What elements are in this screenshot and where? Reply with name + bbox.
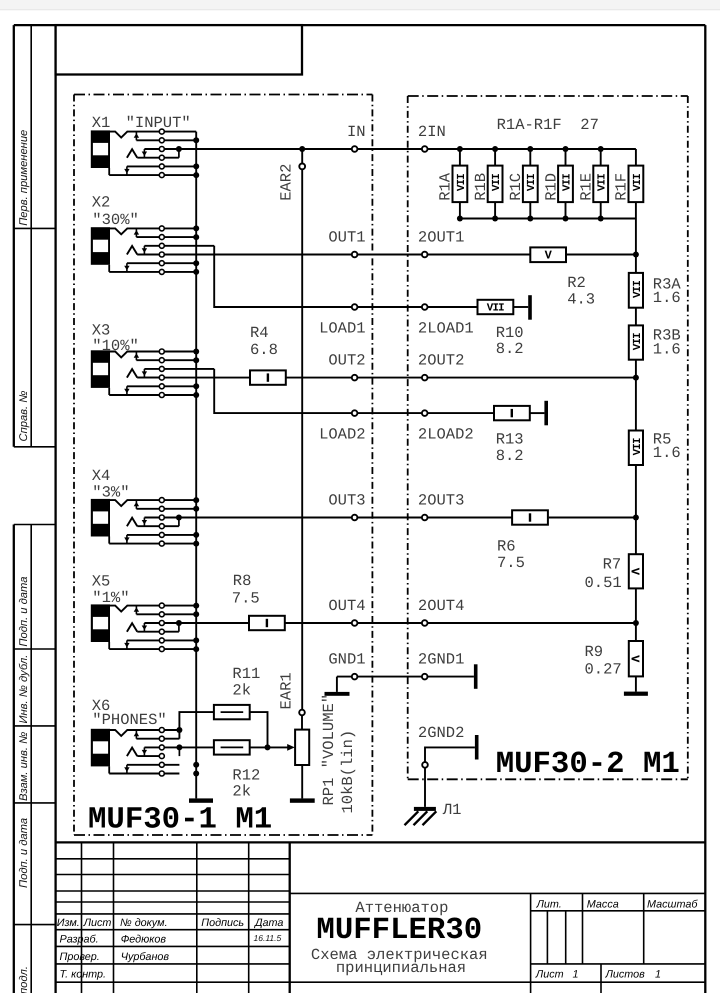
- svg-text:R4: R4: [250, 324, 269, 342]
- wire LOAD1 net riser from X2: [214, 246, 477, 307]
- top left stamp box: [56, 25, 302, 74]
- wire OUT3 net (right of R6): [549, 517, 636, 519]
- svg-text:4.3: 4.3: [567, 290, 595, 308]
- wire X6 C to R12: [179, 746, 214, 748]
- svg-text:Л1: Л1: [442, 801, 462, 819]
- resistor R2: [530, 247, 566, 262]
- svg-text:1.6: 1.6: [653, 289, 681, 307]
- load terminator for 2GND1: [474, 664, 478, 689]
- svg-text:Масштаб: Масштаб: [647, 899, 698, 911]
- connector X5: [91, 573, 199, 653]
- svg-text:LOAD1: LOAD1: [319, 319, 366, 337]
- svg-text:Инв. № дубл.: Инв. № дубл.: [18, 655, 30, 724]
- resistor R1A: [453, 149, 468, 219]
- svg-text:RP1 "VOLUME": RP1 "VOLUME": [320, 694, 338, 806]
- svg-text:16.11.5: 16.11.5: [254, 933, 282, 943]
- svg-text:10kB(lin): 10kB(lin): [339, 730, 357, 814]
- terminal OUT1: [352, 252, 358, 258]
- svg-text:"30%": "30%": [92, 211, 139, 229]
- svg-text:OUT3: OUT3: [328, 491, 365, 509]
- svg-text:2LOAD1: 2LOAD1: [418, 319, 474, 337]
- svg-text:2IN: 2IN: [418, 123, 446, 141]
- load terminator for LOAD2: [544, 401, 548, 426]
- svg-text:Лит.: Лит.: [536, 899, 562, 911]
- wire EAR riser (EAR2 to EAR1): [301, 169, 303, 709]
- terminal 2GND1: [422, 674, 428, 680]
- svg-text:Подпись: Подпись: [201, 917, 244, 929]
- wire X6 A-B riser to R11: [179, 712, 214, 739]
- resistor R4: [250, 370, 286, 384]
- terminal LOAD1: [352, 304, 358, 310]
- module box MUF30-1: [74, 95, 372, 836]
- wire EAR riser (IN to EAR2): [301, 149, 303, 164]
- svg-text:Изм.: Изм.: [57, 917, 80, 929]
- resistor R12: [214, 740, 250, 754]
- ground symbol at GND1: [325, 692, 350, 696]
- svg-text:0.27: 0.27: [585, 660, 622, 678]
- svg-text:"PHONES": "PHONES": [92, 711, 166, 729]
- svg-text:R11: R11: [232, 665, 260, 683]
- wire chain R1F to OUT1 node: [635, 219, 637, 273]
- wire 2GND2 to earth: [424, 768, 426, 807]
- svg-text:V: V: [628, 655, 642, 663]
- svg-text:EAR1: EAR1: [277, 672, 295, 709]
- R1 bank bottom rail junctions: [457, 216, 604, 222]
- connector X4: [91, 467, 199, 547]
- resistor R10: [478, 300, 514, 315]
- svg-text:Дата: Дата: [254, 917, 283, 929]
- svg-text:Т. контр.: Т. контр.: [60, 969, 107, 981]
- junction chain OUT3: [633, 515, 639, 521]
- wire OUT2 net (left of R4): [137, 377, 250, 379]
- svg-text:VII: VII: [632, 438, 644, 455]
- svg-text:IN: IN: [347, 123, 366, 141]
- resistor R9: [628, 641, 643, 676]
- wire R3A to R3B: [635, 308, 637, 326]
- terminal 2OUT1: [422, 252, 428, 258]
- svg-text:R6: R6: [497, 538, 516, 556]
- potentiometer RP1: [295, 730, 309, 765]
- resistor R11: [214, 705, 250, 719]
- svg-text:R1A-R1F 27: R1A-R1F 27: [497, 116, 599, 134]
- junction chain OUT1: [633, 252, 639, 258]
- svg-text:R1D: R1D: [542, 173, 560, 201]
- terminal OUT2: [352, 375, 358, 381]
- ground symbol at R9: [624, 692, 648, 696]
- connector X1: [91, 114, 199, 178]
- svg-text:VII: VII: [526, 174, 538, 191]
- connector X2: [91, 193, 214, 275]
- terminal 2IN: [422, 146, 428, 152]
- svg-text:Лист: Лист: [535, 968, 564, 980]
- resistor R1D: [558, 149, 573, 219]
- svg-text:2GND1: 2GND1: [418, 650, 465, 668]
- svg-text:Подп. и дата: Подп. и дата: [18, 577, 30, 647]
- svg-text:R2: R2: [567, 274, 586, 292]
- terminal 2LOAD2: [422, 410, 428, 416]
- svg-text:"1%": "1%": [92, 589, 129, 607]
- svg-text:MUF30-1 M1: MUF30-1 M1: [88, 803, 272, 838]
- svg-text:2OUT1: 2OUT1: [418, 228, 465, 246]
- resistor R13: [494, 406, 530, 420]
- terminal OUT4: [352, 620, 358, 626]
- svg-text:7.5: 7.5: [497, 554, 525, 572]
- resistor R3A: [629, 273, 644, 308]
- svg-text:2OUT4: 2OUT4: [418, 597, 465, 615]
- svg-text:Провер.: Провер.: [60, 951, 100, 963]
- R1 bank bottom rail: [460, 218, 636, 220]
- wire OUT3 net (left of R6): [179, 517, 512, 519]
- connector X3: [91, 321, 214, 398]
- svg-text:VII: VII: [632, 174, 644, 191]
- wire R11 to wiper riser: [250, 712, 268, 747]
- svg-text:6.8: 6.8: [250, 341, 278, 359]
- svg-text:Чурбанов: Чурбанов: [121, 951, 170, 963]
- resistor R7: [628, 554, 643, 588]
- ground symbol at RP1: [290, 798, 315, 802]
- wire OUT2 net (right of R4): [286, 377, 636, 379]
- terminal IN: [352, 146, 358, 152]
- R1 bank top rail junctions: [457, 146, 604, 152]
- Лист 1 Листов 1 row: [535, 968, 661, 980]
- svg-text:2OUT2: 2OUT2: [418, 351, 465, 369]
- svg-text:X4: X4: [92, 467, 111, 485]
- svg-text:Масса: Масса: [587, 899, 619, 911]
- module box MUF30-2: [408, 96, 688, 779]
- terminal 2OUT2: [422, 375, 428, 381]
- svg-text:MUF30-2 M1: MUF30-2 M1: [496, 747, 680, 782]
- resistor R1F: [629, 149, 644, 219]
- wire LOAD1 to load terminator: [513, 306, 528, 308]
- svg-text:VII: VII: [632, 281, 644, 298]
- svg-text:принципиальная: принципиальная: [336, 959, 466, 977]
- wiper arrow into RP1: [287, 744, 295, 751]
- svg-text:№ докум.: № докум.: [120, 917, 168, 929]
- resistor R6: [512, 510, 548, 524]
- svg-text:Листов: Листов: [605, 968, 646, 980]
- svg-text:7.5: 7.5: [232, 589, 260, 607]
- terminal LOAD2: [352, 410, 358, 416]
- junction X6 row A: [176, 727, 182, 733]
- wire GND1 net: [337, 676, 474, 678]
- svg-text:1.6: 1.6: [653, 341, 681, 359]
- ground symbol at bus bottom: [189, 798, 213, 802]
- svg-text:MUFFLER30: MUFFLER30: [316, 913, 482, 948]
- row Провер. Чурбанов: [60, 951, 170, 963]
- svg-text:R1F: R1F: [613, 173, 631, 201]
- svg-text:2LOAD2: 2LOAD2: [418, 425, 474, 443]
- resistor R1C: [523, 149, 538, 219]
- svg-text:OUT1: OUT1: [328, 228, 365, 246]
- svg-text:R12: R12: [232, 766, 260, 784]
- resistor R5: [629, 431, 644, 466]
- wire LOAD2 to load terminator: [530, 412, 545, 414]
- page top scan band: [0, 0, 720, 9]
- wire common bus: [195, 132, 197, 799]
- svg-text:VII: VII: [487, 303, 504, 315]
- svg-text:V: V: [545, 249, 553, 263]
- earth symbol Л1: [405, 807, 437, 825]
- svg-text:R9: R9: [585, 643, 604, 661]
- wire LOAD2 net riser from X3: [214, 369, 494, 413]
- svg-text:Перв. применение: Перв. применение: [18, 130, 30, 226]
- title block grid: [56, 842, 706, 993]
- svg-text:Лист: Лист: [83, 917, 112, 929]
- svg-text:EAR2: EAR2: [277, 164, 295, 201]
- wire R9 to ground: [635, 676, 637, 691]
- svg-text:LOAD2: LOAD2: [319, 425, 366, 443]
- svg-text:Взам. инв. №: Взам. инв. №: [18, 732, 30, 801]
- wire OUT1 net (left of R2): [137, 254, 530, 256]
- resistor R8: [249, 616, 285, 630]
- load terminator for 2GND2: [475, 735, 479, 760]
- svg-text:OUT4: OUT4: [328, 597, 365, 615]
- svg-text:1: 1: [655, 968, 661, 980]
- svg-text:2k: 2k: [232, 682, 251, 700]
- junction chain OUT2: [633, 375, 639, 381]
- svg-text:R7: R7: [603, 556, 622, 574]
- wire EAR1 to RP1 top: [301, 715, 303, 729]
- terminal OUT3: [352, 515, 358, 521]
- wire 2GND2 net: [425, 747, 475, 762]
- svg-text:Разраб.: Разраб.: [60, 934, 99, 946]
- row Разраб. Федюков: [60, 933, 282, 946]
- svg-text:V: V: [628, 568, 642, 576]
- svg-text:VII: VII: [456, 174, 468, 191]
- svg-text:VII: VII: [597, 174, 609, 191]
- junction wiper node: [265, 744, 271, 750]
- load terminator for LOAD1: [528, 295, 532, 320]
- svg-text:X1: X1: [92, 114, 111, 132]
- connector X6: [91, 697, 199, 777]
- svg-text:2k: 2k: [232, 783, 251, 801]
- svg-text:подл.: подл.: [18, 966, 30, 993]
- svg-text:OUT2: OUT2: [328, 351, 365, 369]
- svg-text:X5: X5: [92, 573, 111, 591]
- svg-text:8.2: 8.2: [496, 447, 524, 465]
- wire R3B to R5: [635, 360, 637, 431]
- svg-text:X2: X2: [92, 193, 111, 211]
- svg-text:"INPUT": "INPUT": [126, 114, 191, 132]
- svg-text:VII: VII: [561, 174, 573, 191]
- title block header texts: [57, 917, 284, 929]
- svg-text:Подп. и дата: Подп. и дата: [18, 818, 30, 888]
- svg-text:0.51: 0.51: [585, 574, 622, 592]
- wire OUT1 net (right of R2): [566, 254, 636, 256]
- svg-text:8.2: 8.2: [496, 340, 524, 358]
- svg-text:2OUT3: 2OUT3: [418, 491, 465, 509]
- wire RP1 bottom to ground: [301, 765, 303, 798]
- wire R7 to R9: [635, 588, 637, 641]
- svg-text:1: 1: [573, 968, 579, 980]
- svg-text:R8: R8: [233, 572, 252, 590]
- terminal 2GND2: [422, 762, 428, 768]
- terminal GND1: [352, 674, 358, 680]
- resistor R1E: [593, 149, 608, 219]
- wire OUT4 net: [179, 622, 636, 624]
- svg-text:VII: VII: [632, 333, 644, 350]
- wire GND1 drop to ground: [336, 677, 338, 692]
- svg-text:2GND2: 2GND2: [418, 724, 465, 742]
- wire R5 to R7: [635, 465, 637, 554]
- Лит. Масса Масштаб labels: [536, 899, 699, 911]
- resistor R3B: [629, 325, 644, 359]
- svg-text:R1C: R1C: [507, 173, 525, 201]
- svg-text:1.6: 1.6: [653, 444, 681, 462]
- svg-text:R1A: R1A: [437, 172, 455, 201]
- svg-text:Федюков: Федюков: [121, 934, 167, 946]
- svg-text:R1E: R1E: [578, 173, 596, 201]
- svg-text:VII: VII: [491, 174, 503, 191]
- wire IN net: [179, 148, 636, 150]
- junction IN / EAR riser: [299, 146, 305, 152]
- svg-text:GND1: GND1: [328, 650, 365, 668]
- svg-text:R1B: R1B: [472, 173, 490, 201]
- junction chain OUT4: [633, 620, 639, 626]
- terminal EAR1: [299, 710, 305, 716]
- terminal 2LOAD1: [422, 304, 428, 310]
- terminal 2OUT3: [422, 515, 428, 521]
- resistor R1B: [488, 149, 503, 219]
- wire R12 to wiper: [250, 746, 288, 748]
- terminal 2OUT4: [422, 620, 428, 626]
- svg-text:Справ. №: Справ. №: [18, 391, 30, 442]
- svg-text:"3%": "3%": [92, 483, 129, 501]
- sidebar column boxes: [14, 25, 56, 993]
- terminal EAR2: [299, 164, 305, 170]
